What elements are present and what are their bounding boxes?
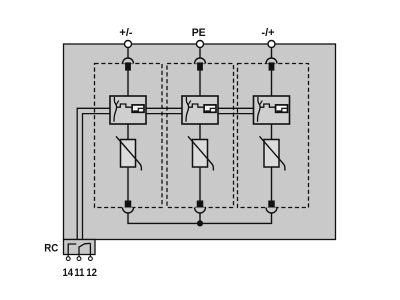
- triggered spark gap (module 3): housing: [254, 96, 290, 124]
- terminal 12: [89, 255, 91, 257]
- terminal 1: [125, 41, 132, 48]
- wire: disconnector to spark gap: [199, 71, 201, 96]
- triggered spark gap (module 3): pulse waveform: [260, 104, 276, 107]
- triggered spark gap (module 3): trigger unit step: [277, 108, 287, 111]
- junction node on PE path: [197, 220, 203, 226]
- thermal disconnector (top, module 2): arc: [195, 58, 206, 63]
- thermal disconnector (bottom, module 1): contact block: [125, 201, 132, 211]
- wire: monitoring link module1-module2 lower: [146, 113, 182, 115]
- wire: spark gap to varistor: [127, 124, 129, 140]
- thermal disconnector (bottom, module 2): contact block: [197, 201, 204, 211]
- svg-text:12: 12: [86, 267, 97, 279]
- terminal 11: [78, 255, 80, 257]
- protection module 2 (dashed boundary): [167, 64, 234, 208]
- wire: terminal 2 drop to disconnector: [199, 47, 201, 59]
- varistor (module 3): diagonal stroke: [260, 136, 285, 170]
- wire: PE disconnector to junction: [199, 213, 201, 223]
- triggered spark gap (module 3): trigger unit box: [276, 105, 288, 112]
- svg-text:PE: PE: [192, 27, 206, 39]
- remote signalling contact RC (box): [64, 240, 96, 255]
- changeover contact: NC seat (terminal 14 side): [68, 244, 76, 255]
- triggered spark gap (module 1): trigger unit step: [133, 108, 143, 111]
- wire: spark gap to varistor: [271, 124, 273, 140]
- wire: disconnector to spark gap: [127, 71, 129, 96]
- triggered spark gap (module 1): pulse waveform: [117, 104, 133, 107]
- thermal disconnector (top, module 3): contact block: [269, 62, 275, 70]
- triggered spark gap (module 2): housing: [182, 96, 218, 124]
- wire: monitoring link module2-module3 upper: [218, 107, 254, 109]
- svg-text:11: 11: [74, 267, 84, 279]
- protection module 1 (dashed boundary): [95, 64, 163, 208]
- wire: monitoring line module1 to RC (lower): [83, 114, 111, 241]
- changeover contact: common arm (terminal 11 to 12): [79, 243, 90, 254]
- svg-text:+/-: +/-: [119, 27, 132, 39]
- triggered spark gap (module 2): pulse waveform: [189, 104, 205, 107]
- varistor (module 2): diagonal stroke: [188, 136, 213, 170]
- triggered spark gap (module 3): ignition tick: [260, 101, 263, 105]
- wire: spark gap to varistor: [199, 124, 201, 140]
- thermal disconnector (bottom, module 1): arc: [123, 208, 134, 214]
- wire: disconnector to spark gap: [271, 71, 273, 96]
- triggered spark gap (module 2): trigger unit step: [205, 108, 215, 111]
- terminal 14: [67, 255, 69, 257]
- svg-text:-/+: -/+: [261, 27, 274, 39]
- enclosure (device outline): [64, 44, 336, 240]
- wire: monitoring link module1-module2 upper: [146, 107, 182, 109]
- bottom common bus wire: [128, 213, 272, 223]
- thermal disconnector (top, module 3): arc: [266, 58, 277, 63]
- triggered spark gap (module 1): housing: [110, 96, 146, 124]
- protection module 3 (dashed boundary): [238, 64, 309, 208]
- triggered spark gap (module 1): electrode curve: [114, 97, 117, 122]
- svg-text:RC: RC: [44, 242, 58, 254]
- thermal disconnector (bottom, module 2): arc: [195, 208, 206, 214]
- changeover contact: terminal 12 stub: [89, 243, 91, 254]
- varistor (module 2): body: [193, 140, 208, 168]
- triggered spark gap (module 2): ignition tick: [188, 101, 191, 105]
- thermal disconnector (top, module 1): arc: [123, 58, 134, 63]
- triggered spark gap (module 3): electrode curve: [258, 97, 261, 122]
- wire: monitoring link module2-module3 lower: [218, 113, 254, 115]
- varistor (module 3): body: [264, 140, 279, 168]
- wire: varistor to bottom disconnector: [127, 167, 129, 201]
- thermal disconnector (bottom, module 3): arc: [266, 208, 277, 214]
- wire: terminal 3 drop to disconnector: [271, 47, 273, 59]
- triggered spark gap (module 1): trigger unit box: [132, 105, 144, 112]
- wire: varistor to bottom disconnector: [199, 167, 201, 201]
- thermal disconnector (top, module 1): contact block: [125, 62, 131, 70]
- thermal disconnector (top, module 2): contact block: [197, 62, 203, 70]
- svg-text:14: 14: [63, 267, 74, 279]
- thermal disconnector (bottom, module 3): contact block: [268, 201, 275, 211]
- terminal 2: [197, 41, 204, 48]
- triggered spark gap (module 1): ignition tick: [116, 101, 119, 105]
- varistor (module 1): diagonal stroke: [116, 136, 141, 170]
- wire: varistor to bottom disconnector: [271, 167, 273, 201]
- triggered spark gap (module 2): trigger unit box: [204, 105, 216, 112]
- terminal 3: [268, 41, 275, 48]
- varistor (module 1): body: [121, 140, 136, 168]
- triggered spark gap (module 2): electrode curve: [186, 97, 189, 122]
- wire: monitoring line module1 to RC (upper): [77, 108, 110, 240]
- wire: terminal 1 drop to disconnector: [127, 47, 129, 59]
